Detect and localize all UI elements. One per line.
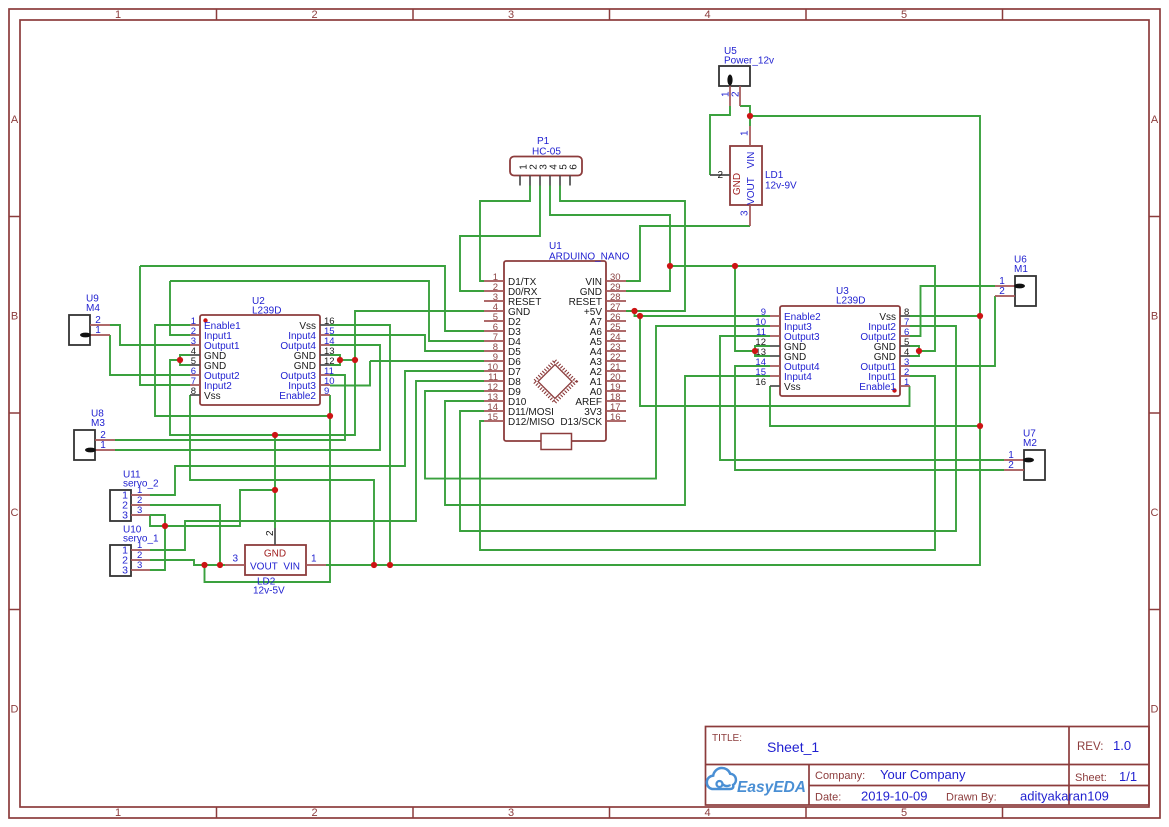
svg-text:Company:: Company: [815, 770, 865, 782]
svg-text:12v-5V: 12v-5V [253, 586, 285, 597]
svg-text:3: 3 [122, 565, 128, 577]
svg-text:REV:: REV: [1077, 741, 1103, 753]
svg-text:P1: P1 [537, 136, 550, 147]
svg-text:2: 2 [999, 286, 1005, 297]
svg-text:U1: U1 [549, 241, 562, 252]
svg-text:1: 1 [115, 807, 121, 819]
svg-text:2: 2 [731, 91, 742, 97]
svg-text:3: 3 [137, 560, 142, 571]
svg-text:1: 1 [100, 440, 106, 451]
svg-text:Your Company: Your Company [880, 767, 966, 782]
svg-text:A: A [1151, 114, 1159, 126]
svg-text:2: 2 [311, 9, 317, 21]
svg-text:ARDUINO_NANO: ARDUINO_NANO [549, 252, 630, 263]
svg-text:D12/MISO: D12/MISO [508, 417, 555, 428]
svg-text:15: 15 [487, 412, 498, 423]
svg-text:servo_1: servo_1 [123, 534, 159, 545]
svg-text:TITLE:: TITLE: [712, 733, 742, 744]
svg-text:1: 1 [740, 130, 751, 136]
svg-text:C: C [1151, 507, 1159, 519]
svg-text:Enable1: Enable1 [859, 382, 896, 393]
svg-text:D13/SCK: D13/SCK [560, 417, 602, 428]
svg-text:C: C [11, 507, 19, 519]
svg-text:Sheet_1: Sheet_1 [767, 739, 819, 755]
svg-text:1.0: 1.0 [1113, 738, 1131, 753]
svg-text:HC-05: HC-05 [532, 147, 561, 158]
svg-text:5: 5 [901, 9, 907, 21]
svg-text:L239D: L239D [252, 306, 281, 317]
svg-text:16: 16 [610, 412, 621, 423]
svg-text:3: 3 [740, 210, 751, 216]
svg-text:B: B [11, 311, 18, 323]
svg-text:Drawn By:: Drawn By: [946, 792, 997, 804]
svg-text:VOUT: VOUT [746, 177, 757, 205]
svg-text:5: 5 [901, 807, 907, 819]
svg-text:Date:: Date: [815, 792, 841, 804]
svg-text:GND: GND [264, 549, 286, 560]
svg-text:4: 4 [704, 9, 710, 21]
svg-text:D: D [1151, 704, 1159, 716]
svg-text:8: 8 [191, 386, 196, 397]
svg-text:Enable2: Enable2 [279, 391, 316, 402]
svg-text:M3: M3 [91, 418, 105, 429]
svg-text:Vss: Vss [204, 391, 221, 402]
svg-text:3: 3 [122, 510, 128, 522]
svg-text:3: 3 [137, 505, 142, 516]
svg-text:VOUT: VOUT [250, 562, 278, 573]
svg-text:9: 9 [324, 386, 329, 397]
svg-text:GND: GND [732, 173, 743, 195]
svg-text:Sheet:: Sheet: [1075, 772, 1107, 784]
svg-text:12v-9V: 12v-9V [765, 181, 797, 192]
svg-text:LD1: LD1 [765, 170, 784, 181]
svg-text:B: B [1151, 311, 1158, 323]
svg-text:3: 3 [508, 807, 514, 819]
svg-text:Power_12v: Power_12v [724, 56, 774, 67]
svg-text:servo_2: servo_2 [123, 479, 159, 490]
svg-text:2: 2 [717, 170, 723, 181]
svg-text:D: D [11, 704, 19, 716]
svg-text:2: 2 [265, 530, 276, 536]
svg-text:2: 2 [1008, 460, 1014, 471]
svg-text:L239D: L239D [836, 296, 865, 307]
svg-text:A: A [11, 114, 19, 126]
svg-text:M4: M4 [86, 303, 100, 314]
svg-text:Vss: Vss [784, 382, 801, 393]
svg-text:4: 4 [704, 807, 710, 819]
svg-text:1: 1 [311, 554, 317, 565]
svg-text:VIN: VIN [283, 562, 300, 573]
svg-text:adityakaran109: adityakaran109 [1020, 789, 1109, 804]
svg-text:2: 2 [311, 807, 317, 819]
svg-text:1: 1 [904, 377, 909, 388]
svg-text:M2: M2 [1023, 438, 1037, 449]
svg-text:3: 3 [508, 9, 514, 21]
svg-text:VIN: VIN [746, 152, 757, 169]
svg-text:1/1: 1/1 [1119, 769, 1137, 784]
svg-text:1: 1 [95, 325, 101, 336]
svg-text:EasyEDA: EasyEDA [737, 779, 806, 796]
svg-text:16: 16 [755, 377, 766, 388]
svg-text:M1: M1 [1014, 264, 1028, 275]
svg-text:3: 3 [232, 554, 238, 565]
svg-text:6: 6 [569, 164, 580, 170]
svg-text:1: 1 [115, 9, 121, 21]
svg-text:2019-10-09: 2019-10-09 [861, 789, 928, 804]
